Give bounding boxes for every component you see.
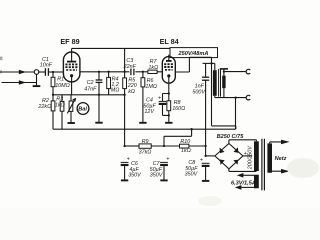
input jack J1 (34, 70, 39, 75)
chassis ground at input (33, 74, 41, 86)
svg-text:kΩ: kΩ (128, 89, 135, 95)
terminal output 2 (246, 95, 250, 100)
svg-text:+: + (158, 96, 161, 102)
resistor R2 (51, 95, 55, 129)
heater wire top (237, 173, 254, 178)
svg-text:R2: R2 (42, 98, 49, 104)
anode signal wire (80, 71, 148, 73)
svg-text:+: + (200, 158, 203, 164)
label HV winding 200/250V (247, 145, 253, 170)
wire bridge minus (243, 151, 252, 157)
svg-text:10nF: 10nF (40, 63, 53, 69)
node grid EF89 (52, 71, 54, 73)
Bal knob circle (77, 103, 89, 115)
label EF 89 (60, 37, 79, 46)
node R5 bottom (123, 94, 125, 96)
bridge rectifier B250 C/75 (215, 144, 243, 169)
svg-text:350V: 350V (185, 172, 199, 178)
diode D3 (220, 160, 225, 165)
node C2 crossing (98, 94, 100, 96)
diode D1 (220, 148, 225, 154)
node C2 top (98, 71, 100, 73)
resistor R1 (51, 72, 55, 95)
svg-text:6,3V/1,5A: 6,3V/1,5A (231, 180, 256, 186)
ground potentiometer (68, 122, 75, 124)
label B250 C/75 (217, 134, 245, 140)
EL84 grids (164, 64, 173, 70)
wire anode to OT primary (203, 62, 215, 64)
wire bridge AC top (229, 140, 257, 144)
label R2 22kΩ (37, 98, 51, 110)
resistor R4 (107, 72, 111, 95)
node EL84 cathode (168, 92, 170, 94)
mains lead top (270, 140, 290, 145)
ground C6 (121, 179, 128, 181)
label Bal (78, 107, 87, 113)
mains transformer primary winding (267, 143, 272, 172)
bottom rail 0V (53, 128, 236, 130)
wire R5 to C6 node (124, 89, 126, 146)
label 1nF 500V (192, 83, 206, 95)
svg-text:Netz: Netz (275, 156, 287, 162)
svg-text:Bal: Bal (78, 107, 87, 113)
wire to speaker terminal 2 (215, 96, 247, 98)
capacitor C3 (131, 69, 134, 76)
ground R6 (139, 122, 146, 124)
svg-text:EF 89: EF 89 (60, 37, 79, 46)
svg-text:10MΩ: 10MΩ (55, 83, 70, 89)
label R3 1kΩ (55, 97, 65, 109)
svg-text:1kΩ: 1kΩ (55, 103, 65, 109)
svg-text:12V: 12V (144, 109, 155, 115)
svg-text:+: + (127, 157, 130, 163)
box 250V/48mA (170, 48, 218, 58)
svg-text:1nF: 1nF (195, 83, 205, 89)
resistor R9 (139, 144, 180, 148)
resistor R5 (123, 72, 127, 89)
feedback loop wire (164, 98, 236, 146)
resistor R6 (141, 72, 145, 123)
svg-text:MΩ: MΩ (111, 88, 120, 94)
input wire top (2, 70, 35, 75)
svg-text:1kΩ: 1kΩ (181, 148, 191, 154)
label R8 160Ω (172, 100, 185, 112)
label R7 1kΩ (148, 59, 158, 71)
label Netz (275, 156, 287, 162)
ground C7 (160, 179, 167, 181)
label 6,3V/1,5A (231, 180, 256, 186)
svg-text:22kΩ: 22kΩ (37, 104, 51, 110)
terminal output 1 (246, 69, 250, 74)
capacitor C6 (121, 162, 129, 180)
input wire bottom (2, 80, 37, 85)
EF89 grids (65, 64, 77, 70)
OT secondary winding (222, 72, 225, 98)
EL84 screen wire (175, 57, 212, 72)
tube EF89 (63, 52, 80, 82)
mains transformer HV winding (254, 141, 259, 171)
resistor R8 (167, 94, 171, 123)
scan artifact bottom right (198, 158, 319, 206)
svg-text:500V: 500V (192, 90, 206, 96)
svg-text:350V: 350V (128, 173, 142, 179)
label R4 1,2MΩ (111, 76, 120, 93)
svg-text:R6: R6 (147, 78, 154, 84)
potentiometer balance (67, 95, 76, 123)
ground C8 (202, 180, 209, 182)
svg-text:200/250V: 200/250V (247, 145, 253, 170)
diode D4 (233, 160, 238, 165)
ground C2 (95, 122, 102, 124)
label R9 37kΩ (139, 139, 152, 155)
EF89 anode (67, 48, 76, 61)
label R1 10MΩ (55, 77, 70, 90)
bias line EF89 (53, 94, 125, 96)
label C3 22nF (123, 58, 137, 70)
svg-text:250V/48mA: 250V/48mA (178, 51, 209, 57)
resistor R10 (180, 144, 206, 148)
label EL 84 (160, 37, 179, 46)
svg-text:R8: R8 (174, 100, 181, 106)
label C4 50µF 12V (143, 96, 161, 116)
label R10 1kΩ (180, 139, 190, 154)
supply rail (123, 145, 165, 147)
node R1 bottom (52, 94, 54, 96)
label R6 1MΩ (145, 78, 157, 90)
svg-text:350V: 350V (150, 173, 164, 179)
label C7 50µF 350V (150, 157, 170, 179)
svg-text:EL 84: EL 84 (160, 37, 179, 46)
svg-text:+: + (166, 157, 169, 163)
B+ drop wire from box (210, 58, 235, 130)
node R4 top (107, 71, 109, 73)
OT core (219, 69, 221, 97)
top rail B+ EF89 (72, 47, 170, 49)
diode D2 (234, 147, 239, 153)
capacitor C4 (159, 94, 170, 117)
wire bridge AC bottom (229, 169, 257, 172)
EF89 cathode (70, 74, 73, 95)
svg-text:R10: R10 (180, 139, 190, 145)
EL84 anode (166, 55, 172, 61)
OT primary winding (213, 63, 217, 97)
label C2 47nF (84, 80, 97, 93)
tube EL84 (162, 57, 175, 84)
scan artifact left edge (0, 57, 2, 74)
ground OT secondary (220, 69, 228, 72)
capacitor 1nF 500V (202, 63, 209, 155)
resistor R7 (148, 70, 162, 73)
node C3 right / R6 top (142, 71, 144, 73)
mains transformer core (262, 139, 265, 191)
svg-text:1kΩ: 1kΩ (148, 65, 158, 71)
capacitor C8 (202, 163, 210, 180)
heater wire bottom (235, 185, 254, 190)
svg-text:160Ω: 160Ω (172, 106, 185, 112)
svg-text:22nF: 22nF (123, 64, 137, 70)
resistor R3 (60, 95, 64, 129)
ground EL84 cathode (165, 122, 172, 124)
label C1 10nF (40, 57, 53, 69)
svg-text:C2: C2 (87, 80, 94, 86)
capacitor C1 (39, 68, 64, 76)
node C8 (204, 145, 214, 157)
svg-text:+: + (244, 151, 247, 157)
wire to speaker terminal 1 (223, 70, 247, 72)
svg-text:R9: R9 (142, 139, 149, 145)
label C8 50µF 350V (185, 158, 203, 178)
svg-text:1MΩ: 1MΩ (145, 84, 157, 90)
node C3 left (123, 71, 125, 73)
EL84 cathode (167, 74, 170, 93)
svg-text:37kΩ: 37kΩ (139, 149, 152, 155)
label C6 4µF 350V (127, 157, 143, 179)
label R5 220kΩ (127, 78, 137, 95)
wire anode to C3 drop (124, 48, 126, 71)
mains transformer heater winding 6,3V (254, 175, 259, 189)
capacitor C7 (160, 162, 168, 180)
mains lead bottom (270, 169, 290, 174)
svg-text:R1: R1 (57, 77, 64, 83)
capacitor C2 (96, 72, 103, 122)
svg-text:47nF: 47nF (84, 86, 97, 92)
